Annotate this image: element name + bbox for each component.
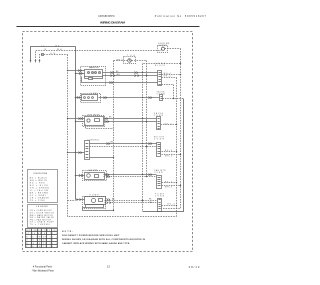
wire timer to B3 [90,157,114,159]
connector arrows on motor wire 3 [110,82,113,84]
notes text block [62,231,146,245]
motor M1 winding 4 [98,71,100,73]
bus B1 L1 vertical [75,47,77,200]
svg-text:BK-4: BK-4 [165,123,172,125]
wire buses to timer [68,152,85,154]
svg-text:WH: WH [57,49,62,51]
switch S2 body [82,95,98,101]
wire motor aux to block pin 3 [82,77,158,83]
svg-text:L1 16 BK SE 22 1: L1 16 BK SE 22 1 [26,233,57,235]
color code legend entries [30,176,50,202]
svg-text:P 18 WH TE 14 4: P 18 WH TE 14 4 [26,246,57,248]
power cord pin P2 [35,60,37,63]
connector C5 pins [158,145,161,154]
connector arrows on pump out 1 [107,199,110,201]
bus B2 ground vertical and bottom run [68,55,177,217]
component code legend box [28,205,58,228]
wire valve bottom to B3 [86,125,114,129]
motor M1 winding 1 [87,71,89,73]
connector C5 body [157,143,161,157]
motor M1 winding 3 [94,71,96,73]
connector C7 body [158,199,162,212]
connector arrows on motor in 2 [79,72,82,74]
thermostat TOD enclosure [124,57,136,64]
header rule [17,26,200,28]
svg-text:BK: BK [56,45,61,47]
svg-text:PK = PINK: PK = PINK [30,200,46,202]
svg-text:GN-4: GN-4 [164,76,171,78]
timer T1 connector body [85,141,90,160]
wire fan to connector C6 pin2 [104,176,157,178]
wire ground from cord to bus B2 [40,55,68,61]
connector arrows on pump in [77,199,81,201]
connector C3 pins [158,119,160,129]
wire door switch to vertical V2 [165,48,181,50]
wire pump bottom loop to B3 [83,208,114,211]
wire neutral from cord to door switch [36,50,162,61]
motor start capacitor loop [85,77,103,79]
connector C3 body [157,117,161,130]
wire B1 to pump [76,199,85,201]
svg-text:Publication No. 5995518297: Publication No. 5995518297 [155,15,207,18]
svg-text:CRH-BF3HPC: CRH-BF3HPC [98,15,115,18]
wire fan to connector C6 pin1 [104,174,157,176]
svg-text:N 16 WH SE 22 1: N 16 WH SE 22 1 [26,236,57,238]
svg-text:M 18 BK TE 14 4: M 18 BK TE 14 4 [26,243,57,245]
fan F1 dashed enclosure [83,171,107,181]
valve coil [87,119,90,122]
svg-text:CONN: CONN [154,172,163,174]
connector C7 pins [159,200,161,209]
door switch S1 enclosure [158,46,168,53]
connector arrows on motor in 1 [78,69,81,71]
connector arrows on valve in wire [79,118,82,120]
svg-text:WH-4: WH-4 [164,73,171,75]
wire C6 to V2 [162,185,181,187]
wire switch S2 to connector C2 [99,97,160,99]
svg-text:BK-4: BK-4 [165,181,172,183]
svg-text:BLOCK: BLOCK [155,65,166,67]
svg-text:LEGEND: LEGEND [36,206,49,208]
thermostat TOD [128,59,132,63]
connector arrows on pump out 2 [107,202,111,204]
fan F1 rotor [87,174,91,178]
wire L1 black from cord to bus B1 [31,47,76,61]
wire C6 to V1 [162,182,177,184]
color code legend box [28,170,58,203]
connector arrows on fan in [79,174,82,176]
svg-text:WIRING SHOWN ON DIAGRAM WITH A: WIRING SHOWN ON DIAGRAM WITH ALL COMPONE… [62,238,146,241]
wire motor to block pin 2 [103,75,158,77]
svg-text:NOTE:: NOTE: [62,231,73,233]
connector arrows on fan out 1 [106,174,152,176]
pump P1 contact [99,199,103,202]
svg-text:WH-4: WH-4 [165,187,172,189]
switch S2 contact 3 [92,97,94,99]
wire timer to connector C5 pin2 [90,146,157,148]
svg-text:WIRING DIAGRAM: WIRING DIAGRAM [100,21,125,25]
wire B2 to valve [68,118,85,120]
wire TOD to bus B5 [132,60,147,62]
connector arrows on fan out 2 [107,176,110,178]
wire B1 to switch S2 [76,97,82,99]
valve body [85,117,104,126]
svg-text:BK-4: BK-4 [168,204,175,206]
diagram dashed border frame [23,32,193,252]
door switch S1 [161,46,164,50]
svg-text:*Non-Illustrated Parts: *Non-Illustrated Parts [32,270,55,273]
conn block CB pins [159,73,161,85]
connector arrows on S2 wire [104,97,152,99]
connector arrows on S2 in [77,96,80,98]
connector arrows on motor wire 1 [111,72,138,74]
conn block CB body [158,71,162,86]
bus B5 vertical from TOD [146,61,148,177]
switch S2 contact 1 [84,97,86,99]
wire block to V2 [162,74,181,76]
svg-text:08/10: 08/10 [189,265,200,269]
wiring grid table text [26,229,57,248]
wire valve to connector C3 pin1 [104,118,157,120]
connector arrows on timer out 1 [107,143,110,145]
svg-text:COLOR CODE: COLOR CODE [33,173,48,175]
connector C6 pins [158,178,161,186]
wire valve to connector C3 pin2 [104,121,157,123]
svg-text:CABINET. REPLACE WIRING WITH S: CABINET. REPLACE WIRING WITH SAME GAUGE … [62,242,130,245]
connector arrows on timer in [79,152,82,154]
svg-text:UPPER: UPPER [159,45,168,47]
wire pump to connector C7 pin1 [105,200,158,202]
motor M1 dashed enclosure [81,67,106,86]
vertical short link V4 [173,85,175,99]
connector C2 body [160,95,163,101]
wire V2 to B4 crosslink [143,63,181,65]
wire motor to block pin 1 [103,72,158,74]
bus B4 vertical [142,64,144,212]
bus B3 neutral mid vertical [113,61,115,211]
wire timer to connector C5 pin1 [90,143,157,145]
capacitor C1 [89,78,93,80]
svg-text:DISCONNECT POWER BEFORE SERVIC: DISCONNECT POWER BEFORE SERVICING UNIT. [62,235,120,237]
wire C5 to V2 [162,154,181,156]
timer T1 pins [86,144,89,158]
vertical V1 right side [176,78,178,217]
switch S2 contact 2 [88,97,90,99]
wire TOD branch left [114,60,128,62]
power cord pin P3 [39,60,41,63]
wire C3 to V1 [161,124,177,126]
vertical V2 right side with bottom link to connector C7 [162,49,181,209]
wire C2 to V3 [163,98,184,100]
wire B1 to valve [76,121,85,123]
valve dashed enclosure [83,116,105,127]
svg-text:GN: GN [50,53,56,55]
connector C6 body [157,176,162,189]
svg-text:BK-4: BK-4 [165,150,172,152]
component code legend entries [30,210,55,226]
wire B2 to motor [68,70,85,72]
connector arrows on valve out 2 [106,121,109,123]
junction dots [67,63,181,211]
svg-text:TD = THERMO: TD = THERMO [30,224,51,226]
wire pump to connector C7 pin2 [105,202,158,204]
svg-text:WTR VALVE: WTR VALVE [88,113,101,116]
wire C5 to V1 [162,151,177,153]
connector arrows on motor wire 2 [111,75,139,77]
fan F1 body [85,173,105,180]
svg-text:# Functional Parts: # Functional Parts [33,266,53,269]
pump P1 rotor [91,198,95,202]
vertical V3 right side with long bottom run [143,99,184,212]
wire C7 to V1 [162,205,177,207]
svg-text:WH-6: WH-6 [117,60,123,62]
wire block to V1 [162,77,177,79]
svg-text:G 16 GN SE 22 1: G 16 GN SE 22 1 [26,240,57,242]
pump P1 sub body [86,205,104,208]
ground wire inline terminal [42,54,44,56]
pump P1 dashed enclosure [83,197,106,209]
wire block to V4 [162,84,174,86]
valve contact box [95,119,100,122]
svg-text:WH-4: WH-4 [165,155,172,157]
power cord pin P1 [30,60,32,63]
svg-text:MAIN MOTOR: MAIN MOTOR [89,66,100,69]
wire B2 link to B1 [68,200,76,202]
switch S2 dashed enclosure [81,94,101,103]
motor M1 body [85,70,103,77]
wire B1 to fan [76,175,85,177]
fan F1 contact [95,175,99,178]
wiring grid table [26,229,58,248]
connector arrows on C5 in [149,143,152,145]
motor M1 winding 2 [91,71,93,73]
connector C2 pins [161,97,163,99]
connector arrows on valve out 1 [105,118,108,120]
wire B1 to motor [76,73,85,75]
pump P1 body [85,197,106,205]
